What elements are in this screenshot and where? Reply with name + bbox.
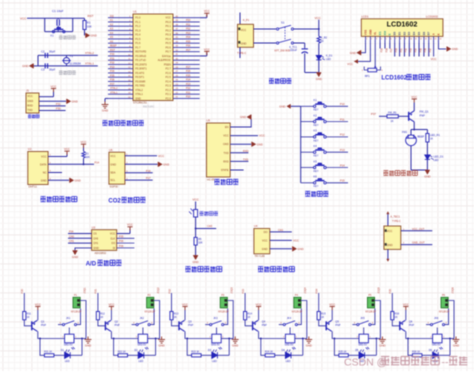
svg-text:P01: P01 bbox=[186, 23, 191, 26]
svg-text:VCC: VCC bbox=[81, 140, 87, 144]
svg-text:CH0: CH0 bbox=[69, 235, 75, 238]
capacitor C1 bbox=[57, 19, 59, 25]
svg-text:P2.5: P2.5 bbox=[166, 75, 172, 79]
svg-text:30pF: 30pF bbox=[49, 49, 56, 53]
svg-text:P10: P10 bbox=[340, 102, 345, 106]
svg-text:KEY: KEY bbox=[314, 139, 319, 142]
wire collector to relay bbox=[406, 331, 433, 338]
ADC U3 ADC0832 bbox=[92, 230, 117, 251]
wire LCD D3 net bbox=[408, 43, 410, 57]
svg-text:P22: P22 bbox=[167, 288, 171, 293]
wire connector pin2 bbox=[79, 304, 81, 306]
svg-text:KF128-2P: KF128-2P bbox=[71, 311, 82, 313]
svg-text:VCC: VCC bbox=[403, 302, 409, 306]
svg-text:KF128-2P: KF128-2P bbox=[439, 311, 450, 313]
svg-text:30pF: 30pF bbox=[49, 68, 56, 72]
svg-text:PNP: PNP bbox=[188, 324, 193, 327]
svg-text:220uF: 220uF bbox=[290, 49, 298, 52]
svg-text:P3.7/RD: P3.7/RD bbox=[135, 84, 145, 88]
svg-text:GND: GND bbox=[93, 247, 99, 250]
svg-text:GND_OUT: GND_OUT bbox=[412, 241, 425, 245]
svg-text:KF128-2P: KF128-2P bbox=[145, 311, 156, 313]
wire R3 bottom bbox=[83, 158, 85, 164]
svg-text:P20: P20 bbox=[186, 96, 191, 99]
label 声光报警电路 bbox=[384, 171, 418, 176]
svg-text:VCC: VCC bbox=[127, 223, 133, 227]
svg-text:P0.1: P0.1 bbox=[166, 24, 172, 28]
svg-text:GND: GND bbox=[452, 47, 458, 51]
svg-text:Q1: Q1 bbox=[41, 320, 45, 324]
wire VSS to GND bbox=[361, 43, 366, 53]
svg-text:KF128-2P: KF128-2P bbox=[218, 311, 229, 313]
resistor R21 bbox=[44, 354, 54, 357]
svg-text:P2.1: P2.1 bbox=[166, 92, 172, 96]
svg-text:VCC: VCC bbox=[192, 197, 199, 201]
transistor Q6 PNP bbox=[400, 320, 406, 331]
svg-text:LED_D1: LED_D1 bbox=[434, 155, 444, 159]
key K5 row bbox=[301, 167, 314, 169]
svg-text:K5: K5 bbox=[314, 159, 318, 163]
label 单片机最小系统 bbox=[103, 121, 144, 126]
crystal Y1 bbox=[63, 58, 69, 64]
svg-text:J1: J1 bbox=[26, 89, 29, 93]
GND port (DHT11) bbox=[70, 178, 74, 183]
svg-text:PSEN: PSEN bbox=[164, 62, 171, 66]
wire VCC pin 40 bbox=[200, 17, 207, 19]
svg-text:R22 1K: R22 1K bbox=[118, 350, 126, 353]
power VCC (cell 4) bbox=[256, 307, 261, 311]
wire split bbox=[411, 129, 427, 131]
wire loop left bbox=[40, 339, 44, 356]
svg-text:P04: P04 bbox=[414, 48, 417, 53]
wire alarm bottom rail bbox=[411, 169, 427, 171]
svg-text:VCC: VCC bbox=[64, 147, 70, 151]
wire BT VCC bbox=[230, 135, 258, 137]
wire vcc stub bbox=[206, 15, 208, 18]
svg-text:KEY: KEY bbox=[314, 155, 319, 158]
svg-text:GND: GND bbox=[306, 343, 312, 347]
svg-text:VCC: VCC bbox=[262, 238, 268, 242]
wire LCD pin 11 bbox=[413, 36, 415, 42]
wire loop left bbox=[44, 18, 46, 31]
svg-text:P35: P35 bbox=[110, 74, 115, 77]
svg-text:U1: U1 bbox=[133, 10, 137, 14]
svg-text:P20: P20 bbox=[20, 288, 24, 293]
wire DHT DATA bbox=[48, 163, 94, 165]
wire soil VCC bbox=[270, 239, 292, 241]
wire EA pin 31 bbox=[200, 55, 207, 57]
wire vcc to emitter bbox=[37, 310, 39, 320]
push button K3 bbox=[313, 136, 326, 138]
svg-text:VCC: VCC bbox=[223, 135, 228, 138]
wire connector pin2 bbox=[300, 304, 302, 306]
wire to key bus bbox=[291, 105, 301, 107]
svg-text:R21 1K: R21 1K bbox=[44, 350, 52, 353]
svg-text:LED: LED bbox=[434, 158, 439, 162]
svg-text:FM1: FM1 bbox=[402, 130, 408, 134]
svg-text:VCC_OUT: VCC_OUT bbox=[412, 227, 425, 231]
svg-text:GND: GND bbox=[41, 178, 47, 182]
wire LCD D6 net bbox=[423, 43, 425, 57]
svg-text:DQ: DQ bbox=[110, 15, 114, 18]
svg-text:P31: P31 bbox=[56, 102, 61, 106]
wire to buzzer bbox=[410, 130, 412, 135]
resistor R15 base bbox=[317, 312, 320, 320]
svg-text:GND: GND bbox=[91, 34, 97, 38]
svg-text:RXD: RXD bbox=[223, 160, 228, 163]
wire switch to connector bbox=[297, 309, 301, 325]
wire key K6 out bbox=[326, 182, 348, 184]
GND port (reset) bbox=[86, 33, 90, 38]
wire pin 2 bbox=[108, 21, 133, 23]
svg-text:P31: P31 bbox=[110, 57, 115, 60]
ground (cell 4) bbox=[305, 337, 312, 344]
wire VCC down bbox=[195, 202, 197, 210]
push button K1 bbox=[313, 105, 326, 107]
svg-text:P0.4: P0.4 bbox=[166, 37, 172, 41]
wire switch stub bbox=[352, 324, 356, 326]
wire LCD pin 5 bbox=[384, 36, 386, 42]
wire connector pin1 bbox=[154, 301, 160, 339]
push button K5 bbox=[313, 166, 326, 168]
LED D6 bbox=[433, 350, 439, 359]
svg-text:1K: 1K bbox=[391, 120, 394, 123]
wire vcc to emitter bbox=[405, 310, 407, 320]
wire pin 6 bbox=[108, 38, 133, 40]
wire switch stub bbox=[205, 324, 209, 326]
svg-text:P36: P36 bbox=[110, 79, 115, 82]
wire pin 23 bbox=[173, 89, 200, 91]
wire loop right bbox=[228, 339, 230, 356]
GND port (J1) bbox=[67, 99, 71, 104]
svg-text:P3.2/INT0: P3.2/INT0 bbox=[135, 62, 147, 66]
GND port (BT2) bbox=[252, 142, 256, 147]
svg-text:TXD: TXD bbox=[224, 152, 229, 155]
capacitor C2 bbox=[45, 53, 47, 58]
svg-text:P25: P25 bbox=[186, 74, 191, 77]
resistor R3 pullup (zigzag) bbox=[82, 151, 85, 158]
svg-text:1K: 1K bbox=[395, 316, 398, 319]
key K2 row bbox=[301, 121, 314, 123]
resistor R1 bbox=[83, 21, 86, 30]
wire BT EN bbox=[230, 119, 251, 127]
wire switch to relay bbox=[142, 328, 144, 330]
wire LED out bbox=[365, 354, 377, 356]
wire CO2 VCC bbox=[125, 155, 157, 157]
svg-text:P06: P06 bbox=[424, 48, 427, 53]
wire J1 RXD bbox=[39, 105, 66, 107]
svg-text:P0.7: P0.7 bbox=[166, 50, 172, 54]
wire R3 top bbox=[83, 146, 85, 151]
power jack P2 bbox=[238, 24, 254, 47]
wire LCD D0 net bbox=[394, 43, 396, 57]
resistor R22 bbox=[118, 354, 128, 357]
svg-text:P25: P25 bbox=[380, 48, 383, 53]
relay JDQ1 bbox=[65, 334, 74, 343]
label 按键电路 bbox=[305, 191, 328, 196]
svg-text:RST: RST bbox=[110, 49, 115, 52]
svg-text:GND: GND bbox=[110, 162, 116, 166]
svg-text:DO: DO bbox=[264, 230, 268, 234]
wire loop left bbox=[408, 339, 412, 356]
svg-text:FM_Q1: FM_Q1 bbox=[420, 110, 429, 114]
key bus vertical bbox=[300, 106, 302, 183]
label 复位电路 bbox=[59, 36, 76, 40]
wire pin 8 bbox=[108, 46, 133, 48]
potentiometer RP1 bbox=[368, 68, 377, 72]
wire power pin2 bbox=[254, 42, 277, 44]
svg-text:P2.6: P2.6 bbox=[166, 71, 172, 75]
wire R5 to GND bbox=[195, 245, 197, 255]
wire LCD pin 6 bbox=[389, 36, 391, 42]
svg-text:P16: P16 bbox=[146, 169, 151, 173]
wire relay top pin bbox=[363, 330, 365, 334]
wire relay right pin bbox=[368, 338, 380, 340]
wire LCD D7 net bbox=[428, 43, 430, 57]
svg-text:SCL: SCL bbox=[110, 178, 116, 182]
wire connector pin1 bbox=[227, 301, 233, 339]
wire P22 down bbox=[171, 293, 173, 312]
sensor U6 CO2 bbox=[109, 152, 125, 184]
wire connector pin1 bbox=[80, 301, 86, 339]
svg-text:XTAL2: XTAL2 bbox=[110, 87, 118, 90]
push button K2 bbox=[313, 120, 326, 122]
svg-text:P01: P01 bbox=[400, 48, 403, 53]
svg-text:D5: D5 bbox=[417, 31, 421, 35]
svg-text:FM_R1: FM_R1 bbox=[388, 110, 397, 114]
wire XTAL2 bbox=[38, 54, 98, 56]
svg-text:CLK: CLK bbox=[110, 237, 115, 240]
svg-text:Q5: Q5 bbox=[335, 320, 339, 324]
svg-text:JDQ1: JDQ1 bbox=[83, 287, 86, 294]
GND port (ADC) bbox=[73, 251, 78, 255]
wire pin 5 bbox=[108, 34, 133, 36]
svg-text:P05: P05 bbox=[419, 48, 422, 53]
wire LCD pin 15 bbox=[433, 36, 435, 42]
resistor R11 base bbox=[23, 312, 26, 320]
wire to base resistor bbox=[379, 115, 387, 117]
wire pin 34 bbox=[173, 42, 200, 44]
transistor Q3 PNP bbox=[179, 320, 185, 331]
svg-text:LED: LED bbox=[212, 360, 217, 363]
svg-text:STATE: STATE bbox=[221, 169, 229, 172]
relay contact switch JK3 bbox=[210, 321, 224, 326]
svg-text:Q3: Q3 bbox=[188, 320, 192, 324]
wire pin 33 bbox=[173, 46, 200, 48]
svg-text:C1 10uF: C1 10uF bbox=[52, 9, 64, 13]
wire to Q1 base bbox=[398, 115, 408, 117]
GND port (CO2) bbox=[158, 162, 162, 167]
power VCC (MCU EA) bbox=[204, 51, 209, 55]
svg-text:P12: P12 bbox=[340, 133, 345, 137]
wire collector to relay bbox=[185, 331, 212, 338]
svg-text:R23 1K: R23 1K bbox=[191, 350, 199, 353]
svg-text:VCC: VCC bbox=[411, 95, 417, 99]
wire relay top pin bbox=[289, 330, 291, 334]
resistor R23 bbox=[192, 354, 202, 357]
ground (cell 1) bbox=[85, 337, 92, 344]
svg-text:CH0: CH0 bbox=[93, 237, 99, 240]
svg-text:LED: LED bbox=[286, 360, 291, 363]
wire relay right pin bbox=[295, 338, 307, 340]
sensor U4 soil moisture bbox=[254, 229, 270, 254]
wire collector down bbox=[413, 122, 415, 130]
wire LCD pin 8 bbox=[399, 36, 401, 42]
power VCC (cell 6) bbox=[403, 307, 408, 311]
wire collector to relay bbox=[332, 331, 359, 338]
svg-text:SRD-5V: SRD-5V bbox=[64, 343, 73, 346]
wire to base bbox=[319, 320, 327, 326]
wire pin 20 bbox=[108, 97, 133, 99]
svg-text:K2: K2 bbox=[314, 113, 318, 117]
wire R to LED bbox=[128, 354, 139, 356]
svg-text:JDQ2: JDQ2 bbox=[157, 287, 160, 294]
svg-text:LCD1602: LCD1602 bbox=[387, 19, 418, 28]
svg-text:JDQ3: JDQ3 bbox=[231, 287, 234, 294]
svg-text:CS: CS bbox=[93, 233, 97, 236]
wire pin 19 bbox=[108, 93, 133, 95]
wire connector pin2 bbox=[374, 304, 376, 306]
svg-text:P13: P13 bbox=[340, 148, 345, 152]
svg-text:LED: LED bbox=[138, 360, 143, 363]
svg-text:VDD: VDD bbox=[368, 29, 372, 35]
svg-text:GND: GND bbox=[85, 343, 91, 347]
svg-text:LCD1602: LCD1602 bbox=[381, 76, 407, 82]
wire GND_OUT bbox=[401, 244, 433, 246]
svg-text:D4: D4 bbox=[412, 31, 416, 35]
ground (cell 3) bbox=[232, 337, 239, 344]
wire LCD K to GND bbox=[438, 43, 446, 49]
sensor U2 DHT11 bbox=[28, 152, 48, 185]
wire LED out bbox=[438, 354, 450, 356]
wire pin 4 bbox=[108, 29, 133, 31]
wire ADC CH0 bbox=[68, 237, 92, 239]
svg-text:P34: P34 bbox=[110, 70, 115, 73]
GND port (light) bbox=[193, 255, 198, 259]
svg-text:P35: P35 bbox=[119, 235, 124, 238]
svg-text:10K: 10K bbox=[87, 25, 92, 29]
svg-text:VCC: VCC bbox=[41, 155, 47, 159]
wire vcc stub 2 bbox=[206, 53, 208, 56]
label 晶振电路 bbox=[59, 71, 76, 75]
svg-text:DHT11: DHT11 bbox=[29, 185, 38, 189]
wire switch stub bbox=[132, 324, 136, 326]
svg-text:TXD: TXD bbox=[27, 108, 32, 112]
LCD module LCD1602 bbox=[361, 19, 443, 37]
wire LCD RW net bbox=[384, 43, 386, 49]
wire vcc to emitter bbox=[110, 310, 112, 320]
GND port (power) bbox=[316, 73, 321, 77]
wire R1 bottom bbox=[84, 30, 86, 36]
power VCC (LCD VDD) bbox=[354, 59, 358, 63]
svg-text:P07: P07 bbox=[186, 49, 191, 52]
svg-text:P04: P04 bbox=[186, 36, 191, 39]
wire vcc to emitter bbox=[184, 310, 186, 320]
svg-text:VCC: VCC bbox=[110, 233, 115, 236]
svg-text:DATA: DATA bbox=[40, 162, 47, 166]
wire LCD pin 7 bbox=[394, 36, 396, 42]
terminal P2 KF128-2P bbox=[147, 297, 154, 308]
svg-text:XTAL1: XTAL1 bbox=[135, 92, 143, 96]
wire pin 31 bbox=[173, 55, 200, 57]
wire key K2 out bbox=[326, 121, 348, 123]
wire relay top pin bbox=[216, 330, 218, 334]
svg-text:P0.0: P0.0 bbox=[166, 20, 172, 24]
svg-text:P3.0/RxD: P3.0/RxD bbox=[135, 54, 146, 58]
wire LCD pin 16 bbox=[437, 36, 439, 42]
wire DHT VCC bbox=[48, 156, 67, 158]
wire J1 GND bbox=[39, 100, 66, 102]
wire LED to gnd bbox=[318, 60, 320, 73]
svg-text:SRD-5V: SRD-5V bbox=[137, 343, 146, 346]
power VCC (ADC) bbox=[127, 227, 132, 231]
wire LCD pin 12 bbox=[418, 36, 420, 42]
svg-text:SRD-5V: SRD-5V bbox=[358, 343, 367, 346]
wire switch to relay bbox=[289, 328, 291, 330]
svg-text:XTAL1: XTAL1 bbox=[85, 61, 94, 65]
svg-text:K_P1: K_P1 bbox=[243, 19, 250, 22]
svg-text:RST/VPD: RST/VPD bbox=[135, 50, 146, 54]
svg-text:SRD-5V: SRD-5V bbox=[211, 343, 220, 346]
svg-text:P3.1/TxD: P3.1/TxD bbox=[135, 58, 146, 62]
svg-text:U2: U2 bbox=[28, 147, 32, 151]
svg-text:SRD-5V: SRD-5V bbox=[285, 343, 294, 346]
svg-text:P06: P06 bbox=[186, 45, 191, 48]
svg-text:P14: P14 bbox=[95, 161, 100, 165]
svg-text:GND: GND bbox=[453, 343, 459, 347]
wire switch stub bbox=[58, 324, 62, 326]
svg-text:STC89C51: STC89C51 bbox=[133, 101, 147, 105]
svg-text:GND: GND bbox=[75, 178, 81, 182]
svg-text:1K: 1K bbox=[100, 316, 103, 319]
svg-text:K1: K1 bbox=[314, 98, 318, 102]
svg-text:GND: GND bbox=[424, 174, 430, 178]
wire pin 10 bbox=[108, 55, 133, 57]
svg-text:P1.6: P1.6 bbox=[135, 41, 141, 45]
label 下载口 bbox=[28, 115, 39, 118]
resistor LED_R1 bbox=[426, 134, 429, 143]
wire key K5 out bbox=[326, 167, 348, 169]
wire relay top pin bbox=[142, 330, 144, 334]
module U5 Bluetooth HC-05 bbox=[207, 123, 231, 177]
svg-text:JDQ4: JDQ4 bbox=[304, 287, 307, 294]
wire connector pin2 bbox=[153, 304, 155, 306]
svg-text:BEEP: BEEP bbox=[110, 45, 117, 48]
wire pin 30 bbox=[173, 59, 200, 61]
LED D2 (alarm) bbox=[425, 155, 434, 159]
terminal P6 KF128-2P bbox=[441, 297, 448, 308]
resistor R26 bbox=[412, 354, 422, 357]
svg-text:CO2: CO2 bbox=[108, 199, 121, 205]
wire pin 18 bbox=[108, 89, 133, 91]
wire loop left bbox=[261, 339, 265, 356]
wire LCD D4 net bbox=[413, 43, 415, 57]
wire gnd down bbox=[104, 98, 106, 102]
switch S1 lower bbox=[277, 39, 294, 44]
svg-text:K3: K3 bbox=[314, 129, 318, 133]
svg-text:VCC: VCC bbox=[293, 239, 299, 243]
wire R to LED bbox=[422, 354, 433, 356]
wire collector to relay bbox=[111, 331, 138, 338]
svg-text:Q4: Q4 bbox=[262, 320, 266, 324]
wire pin 26 bbox=[173, 76, 200, 78]
svg-text:VCC: VCC bbox=[165, 16, 171, 20]
photoresistor RG1 bbox=[189, 209, 198, 218]
svg-text:P24: P24 bbox=[315, 288, 319, 293]
wire switch stub bbox=[279, 324, 283, 326]
svg-text:A_TEC1: A_TEC1 bbox=[390, 216, 400, 219]
wire P24 down bbox=[318, 293, 320, 312]
